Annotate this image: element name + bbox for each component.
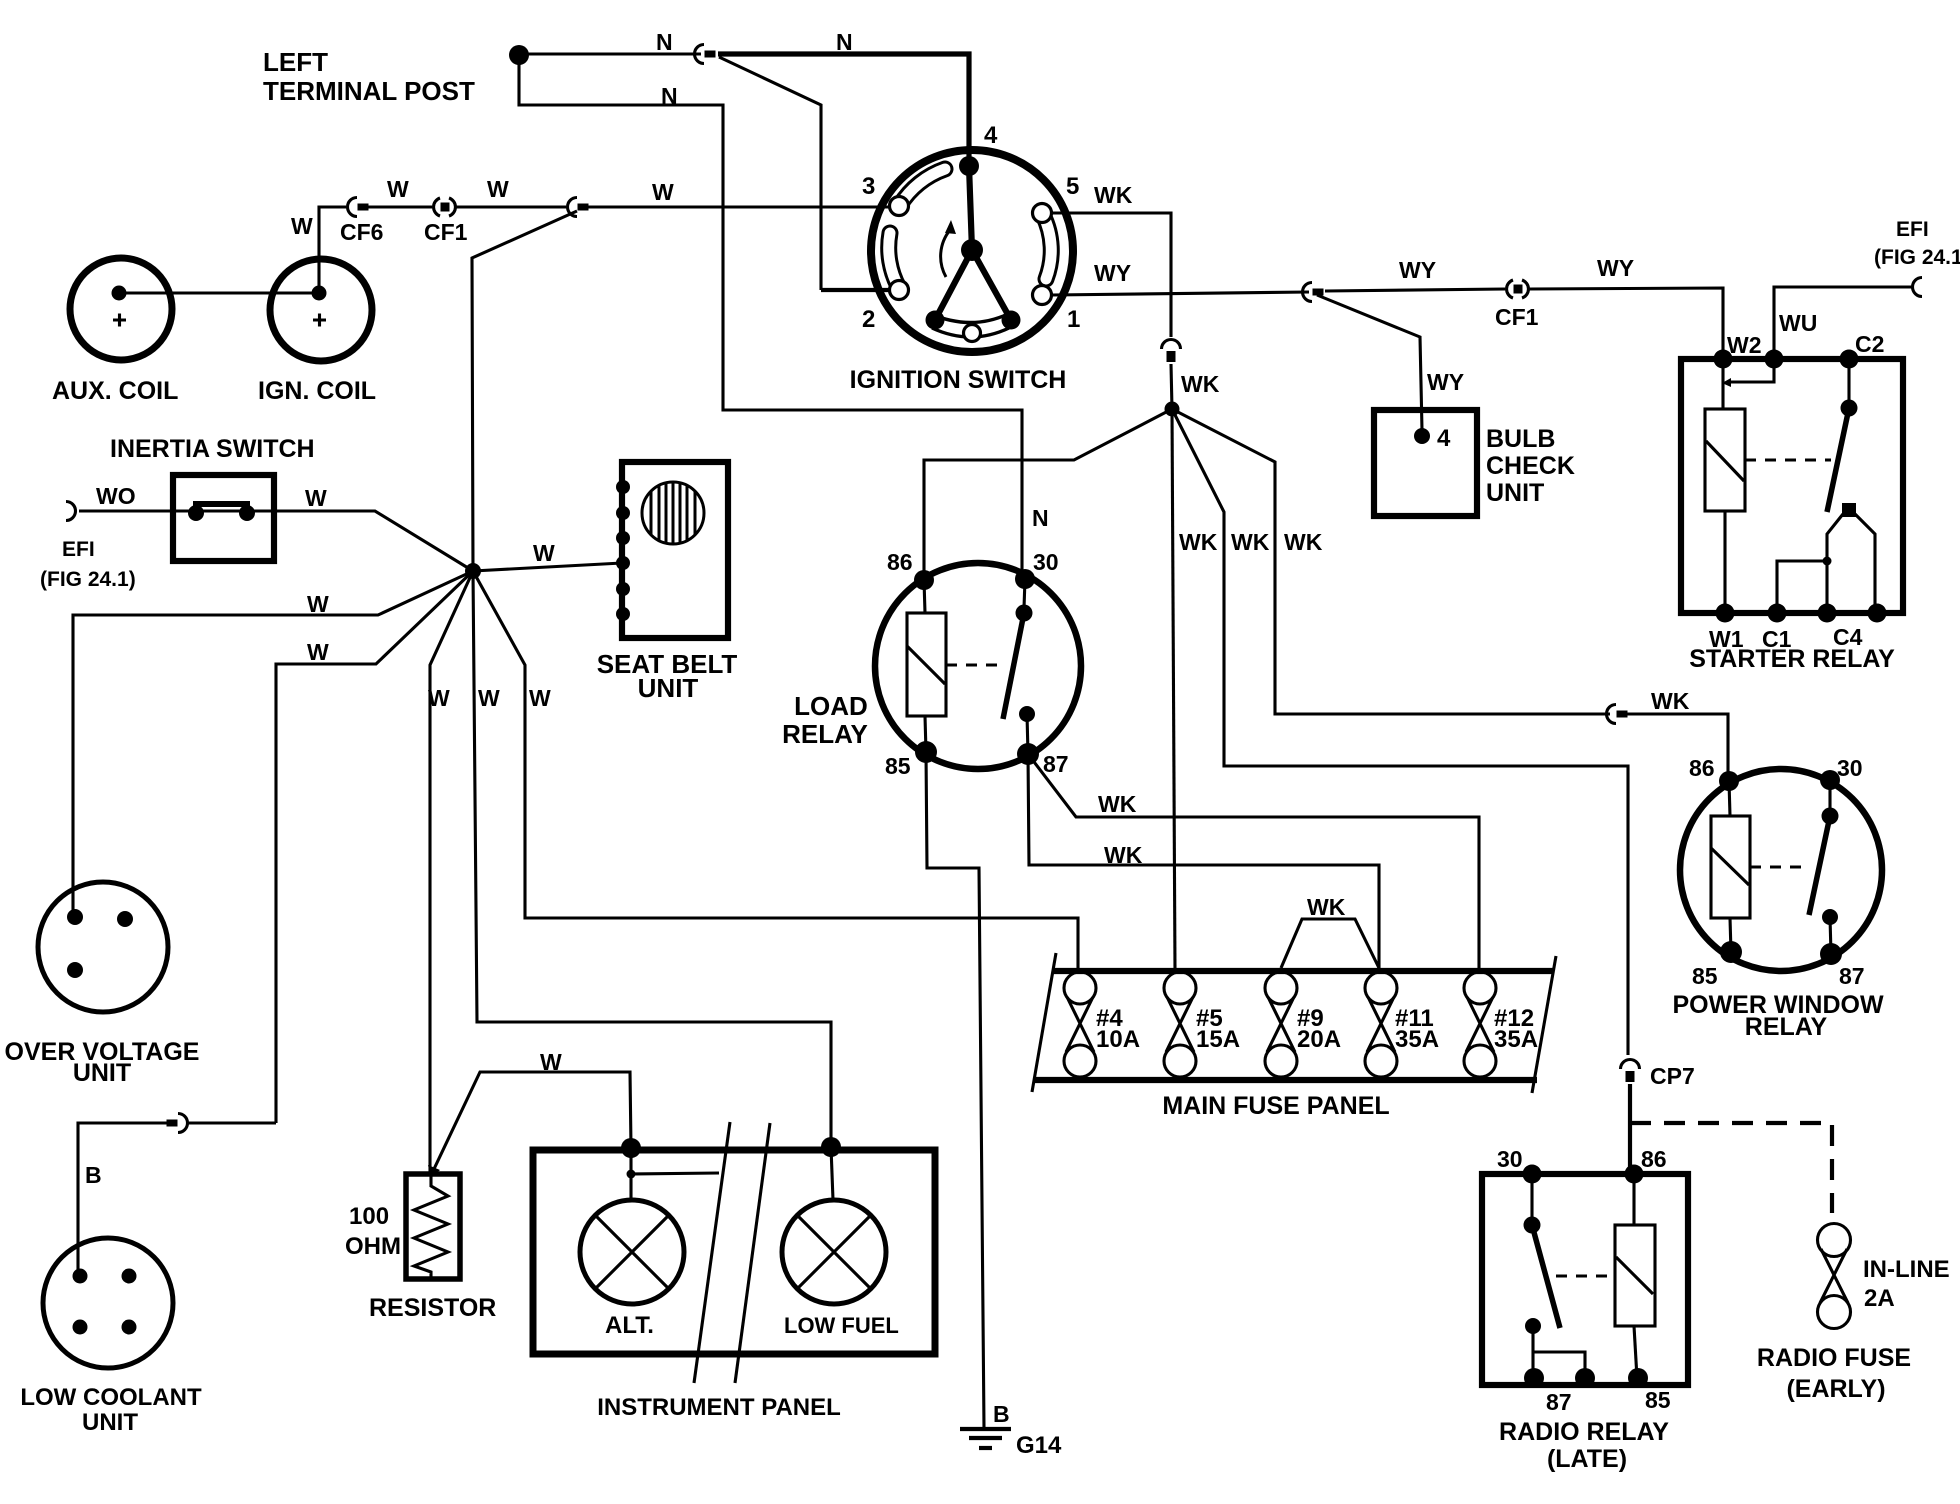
svg-text:20A: 20A xyxy=(1297,1026,1341,1053)
starter relay switch xyxy=(1847,359,1850,404)
svg-text:87: 87 xyxy=(1043,751,1069,777)
svg-text:85: 85 xyxy=(1692,963,1718,989)
svg-text:W: W xyxy=(487,176,509,202)
fuse #4 xyxy=(1064,972,1096,1077)
radio relay switch xyxy=(1530,1174,1533,1220)
fuse #12 xyxy=(1464,972,1496,1077)
svg-text:4: 4 xyxy=(1437,425,1451,452)
svg-text:UNIT: UNIT xyxy=(1486,479,1544,507)
instrument panel internal stub xyxy=(629,1148,632,1200)
svg-text:100: 100 xyxy=(349,1203,389,1230)
wire W junction to seat belt unit xyxy=(473,563,622,571)
svg-text:WK: WK xyxy=(1094,182,1133,208)
wire WO to inertia switch xyxy=(79,509,174,512)
svg-text:WY: WY xyxy=(1094,260,1131,286)
starter relay coil to W1 xyxy=(1723,511,1726,613)
svg-text:(EARLY): (EARLY) xyxy=(1786,1375,1885,1403)
svg-text:RADIO FUSE: RADIO FUSE xyxy=(1757,1344,1911,1372)
wire WK connector to junction xyxy=(1171,364,1172,409)
svg-text:WK: WK xyxy=(1098,791,1137,817)
svg-text:WK: WK xyxy=(1651,688,1690,714)
svg-text:86: 86 xyxy=(887,549,913,575)
svg-text:MAIN FUSE PANEL: MAIN FUSE PANEL xyxy=(1162,1092,1389,1120)
wire WK CP7 to radio relay 86 xyxy=(1628,1084,1632,1174)
starter relay xyxy=(1681,350,1903,623)
connector CF1 xyxy=(434,198,456,216)
svg-text:WU: WU xyxy=(1779,310,1817,336)
svg-text:30: 30 xyxy=(1497,1146,1523,1172)
svg-text:2: 2 xyxy=(862,306,875,333)
svg-text:4: 4 xyxy=(984,122,998,149)
power window relay coil xyxy=(1729,781,1730,816)
svg-text:IGN. COIL: IGN. COIL xyxy=(258,377,376,405)
svg-text:CP7: CP7 xyxy=(1650,1063,1695,1089)
svg-text:85: 85 xyxy=(885,753,911,779)
ignition switch hole 1 xyxy=(1033,286,1052,305)
wire W CF6 to CF1 xyxy=(368,205,432,208)
wire W connector diagonal down to junction xyxy=(472,211,577,571)
svg-text:(FIG 24.1): (FIG 24.1) xyxy=(40,568,136,591)
wire N branch diagonal to ignition terminal 2 xyxy=(719,57,821,290)
starter relay bottom terminals xyxy=(1716,604,1735,623)
ignition coil xyxy=(270,259,372,361)
radio relay coil xyxy=(1615,1225,1655,1326)
svg-text:W: W xyxy=(305,485,327,511)
svg-text:RESISTOR: RESISTOR xyxy=(369,1294,496,1322)
wire WK load 87 to fuse 12 xyxy=(1028,754,1479,971)
svg-text:B: B xyxy=(85,1162,102,1188)
connector (W) xyxy=(568,198,589,217)
ignition switch rotation arrow xyxy=(941,230,950,277)
svg-text:WK: WK xyxy=(1181,371,1220,397)
connector (WY) xyxy=(1303,283,1324,302)
ignition switch lever xyxy=(935,166,1011,320)
starter relay internal W2 to coil xyxy=(1721,359,1724,409)
wire WY connector to CF1 xyxy=(1325,289,1505,291)
svg-text:W: W xyxy=(540,1049,562,1075)
svg-text:UNIT: UNIT xyxy=(73,1059,131,1087)
svg-text:UNIT: UNIT xyxy=(82,1409,138,1436)
svg-text:RELAY: RELAY xyxy=(782,719,868,749)
load relay dashed link xyxy=(946,663,1005,666)
svg-text:87: 87 xyxy=(1839,963,1865,989)
connector (WO end) xyxy=(66,502,76,521)
wire dashed to radio fuse xyxy=(1630,1123,1832,1213)
svg-text:WK: WK xyxy=(1231,529,1270,555)
wire N from terminal post to connector xyxy=(519,52,701,55)
wire W resistor to ALT lamp xyxy=(434,1072,631,1169)
wire W junction to low coolant connector xyxy=(276,571,473,1123)
wire W connector to ignition hole 3 xyxy=(585,205,890,208)
svg-text:CHECK: CHECK xyxy=(1486,452,1575,480)
starter relay coil xyxy=(1705,409,1745,511)
wire WK load 87 to fuse 11 xyxy=(1028,754,1379,971)
svg-text:W: W xyxy=(307,639,329,665)
ignition switch hole 5 xyxy=(1033,204,1052,223)
instrument panel break marks xyxy=(694,1122,730,1383)
svg-text:EFI: EFI xyxy=(1896,218,1929,241)
main fuse panel xyxy=(1032,953,1556,1093)
connector (low coolant B wire) xyxy=(167,1114,188,1133)
fuse #9 xyxy=(1265,972,1297,1077)
instrument panel xyxy=(533,1137,935,1354)
svg-text:(FIG 24.1): (FIG 24.1) xyxy=(1874,246,1960,269)
svg-text:RADIO RELAY: RADIO RELAY xyxy=(1499,1418,1669,1446)
wire W junction down to resistor xyxy=(430,571,473,1176)
power window relay xyxy=(1680,769,1882,971)
ignition switch body xyxy=(871,150,1073,352)
svg-text:W: W xyxy=(478,685,500,711)
svg-text:LOW FUEL: LOW FUEL xyxy=(784,1313,899,1338)
svg-text:5: 5 xyxy=(1066,173,1079,200)
power window relay switch xyxy=(1828,780,1831,811)
svg-text:EFI: EFI xyxy=(62,538,95,561)
svg-text:WK: WK xyxy=(1179,529,1218,555)
svg-text:CF6: CF6 xyxy=(340,219,383,245)
svg-text:WK: WK xyxy=(1307,894,1346,920)
svg-text:BULB: BULB xyxy=(1486,425,1555,453)
svg-text:1: 1 xyxy=(1067,306,1080,333)
power window relay dashed link xyxy=(1750,865,1810,868)
inertia switch xyxy=(173,475,274,561)
svg-text:15A: 15A xyxy=(1196,1026,1240,1053)
svg-text:TERMINAL POST: TERMINAL POST xyxy=(263,76,475,106)
radio relay (late) xyxy=(1482,1165,1688,1389)
load relay xyxy=(875,563,1081,769)
wire W junction down to low fuel lamp xyxy=(473,571,831,1147)
svg-text:WK: WK xyxy=(1284,529,1323,555)
seat belt unit xyxy=(616,462,728,638)
ignition switch hole 2 xyxy=(890,281,909,300)
load relay coil xyxy=(924,580,925,613)
load relay switch xyxy=(1024,579,1025,608)
wire B connector to low coolant unit xyxy=(186,1121,276,1124)
aux coil A1 xyxy=(70,258,172,360)
wire WK ignition 5 to connector xyxy=(1052,213,1171,337)
wire W inertia switch to junction xyxy=(274,511,473,571)
svg-text:WY: WY xyxy=(1399,257,1436,283)
left terminal post xyxy=(509,45,529,65)
svg-text:30: 30 xyxy=(1033,549,1059,575)
svg-text:W: W xyxy=(428,685,450,711)
connector (N) xyxy=(695,45,716,64)
wire aux coil to ign coil xyxy=(119,291,319,294)
svg-text:W: W xyxy=(387,176,409,202)
svg-text:RELAY: RELAY xyxy=(1745,1013,1828,1041)
svg-text:WO: WO xyxy=(96,483,136,509)
svg-text:WY: WY xyxy=(1427,369,1464,395)
wire W junction down to fuse 4 xyxy=(473,571,1078,971)
low coolant unit xyxy=(43,1238,173,1368)
wire WY ignition 1 to connector xyxy=(1052,292,1309,295)
resistor 100 OHM xyxy=(406,1174,460,1279)
svg-text:N: N xyxy=(656,29,673,55)
ignition switch slot left xyxy=(889,233,899,288)
wire W CF1 to connector xyxy=(456,205,566,208)
svg-text:G14: G14 xyxy=(1016,1432,1062,1459)
svg-text:UNIT: UNIT xyxy=(638,673,699,703)
svg-text:N: N xyxy=(661,83,678,109)
svg-text:W2: W2 xyxy=(1727,332,1762,358)
wire WY CF1 to starter relay W2 xyxy=(1529,288,1723,359)
wire WU from EFI to starter relay xyxy=(1774,287,1914,359)
svg-text:30: 30 xyxy=(1837,755,1863,781)
svg-text:87: 87 xyxy=(1546,1389,1572,1415)
fuse #11 xyxy=(1365,972,1397,1077)
svg-text:86: 86 xyxy=(1641,1146,1667,1172)
svg-text:OHM: OHM xyxy=(345,1233,401,1260)
svg-text:ALT.: ALT. xyxy=(605,1312,654,1339)
over voltage unit xyxy=(38,882,168,1012)
wire WK junction to power window relay xyxy=(1172,409,1610,714)
seat belt unit speaker circle xyxy=(642,482,704,544)
svg-text:N: N xyxy=(836,29,853,55)
svg-text:B: B xyxy=(993,1401,1010,1427)
svg-text:C2: C2 xyxy=(1855,331,1884,357)
svg-text:W: W xyxy=(652,179,674,205)
ignition switch slot right xyxy=(1043,215,1051,279)
svg-text:W: W xyxy=(529,685,551,711)
connector CF1 (right) xyxy=(1507,280,1529,298)
svg-text:AUX. COIL: AUX. COIL xyxy=(52,377,178,405)
wire W junction to over voltage unit xyxy=(73,571,473,917)
svg-text:(LATE): (LATE) xyxy=(1547,1445,1627,1473)
ignition switch hole 3 xyxy=(890,197,909,216)
svg-text:2A: 2A xyxy=(1864,1285,1895,1312)
in-line fuse 2A xyxy=(1818,1224,1851,1329)
starter relay dashed link xyxy=(1745,458,1831,461)
wire N second from terminal post xyxy=(519,55,1022,579)
svg-text:3: 3 xyxy=(862,173,875,200)
connector (EFI right) xyxy=(1913,278,1923,297)
svg-text:LEFT: LEFT xyxy=(263,47,328,77)
svg-text:10A: 10A xyxy=(1096,1026,1140,1053)
connector (WK mid right) xyxy=(1607,705,1628,724)
svg-text:W: W xyxy=(533,540,555,566)
wire WK junction down to fuse 5 xyxy=(1172,409,1175,971)
connector CF6 xyxy=(348,198,369,217)
bulb check unit xyxy=(1374,410,1477,516)
svg-text:IGNITION SWITCH: IGNITION SWITCH xyxy=(850,366,1067,394)
junction node WK xyxy=(1165,402,1180,417)
svg-text:CF1: CF1 xyxy=(1495,304,1539,330)
svg-text:WY: WY xyxy=(1597,255,1634,281)
wire B load 85 to ground xyxy=(926,752,984,1428)
connector CP7 xyxy=(1621,1060,1640,1083)
wire W ign coil up to CF6 xyxy=(319,207,346,293)
radio relay bottom terminals xyxy=(1524,1368,1544,1388)
svg-text:CF1: CF1 xyxy=(424,219,468,245)
connector CP (below ignition) xyxy=(1162,340,1181,363)
svg-text:86: 86 xyxy=(1689,755,1715,781)
lamp ALT xyxy=(580,1200,684,1304)
svg-text:35A: 35A xyxy=(1395,1026,1439,1053)
wire WK connector to power window relay 86 xyxy=(1627,714,1728,781)
wire WK junction to load relay 86 xyxy=(924,409,1172,580)
starter relay contact flag xyxy=(1842,503,1856,517)
ignition switch slot top-left xyxy=(900,169,945,205)
lamp LOW FUEL xyxy=(782,1200,886,1304)
svg-text:STARTER RELAY: STARTER RELAY xyxy=(1689,645,1895,673)
svg-text:LOW COOLANT: LOW COOLANT xyxy=(20,1384,202,1411)
wire WY connector diagonal to bulb check unit xyxy=(1317,295,1422,430)
ground G14 xyxy=(960,1429,1011,1448)
ignition switch xyxy=(871,150,1073,352)
fuse #5 xyxy=(1164,972,1196,1077)
wire WK label trapezoid over fuses 9 and 11 xyxy=(1281,919,1379,968)
svg-text:W: W xyxy=(307,591,329,617)
junction node (W star) xyxy=(465,563,481,579)
svg-text:INSTRUMENT PANEL: INSTRUMENT PANEL xyxy=(597,1394,841,1421)
svg-text:N: N xyxy=(1032,505,1049,531)
ignition switch bottom arc band xyxy=(931,314,1008,323)
wire N thick from connector to ignition terminal 4 xyxy=(718,54,969,163)
svg-text:INERTIA SWITCH: INERTIA SWITCH xyxy=(110,435,315,463)
starter relay internal WU jog xyxy=(1730,359,1774,382)
svg-text:85: 85 xyxy=(1645,1387,1671,1413)
svg-text:LOAD: LOAD xyxy=(794,691,868,721)
ignition switch bottom hole xyxy=(964,325,981,342)
wire WK junction to CP7 and radio relay 86 xyxy=(1172,409,1628,1055)
radio relay dashed link xyxy=(1556,1274,1614,1277)
svg-text:W: W xyxy=(291,213,313,239)
svg-text:35A: 35A xyxy=(1494,1026,1538,1053)
svg-text:WK: WK xyxy=(1104,842,1143,868)
svg-text:IN-LINE: IN-LINE xyxy=(1863,1256,1950,1283)
